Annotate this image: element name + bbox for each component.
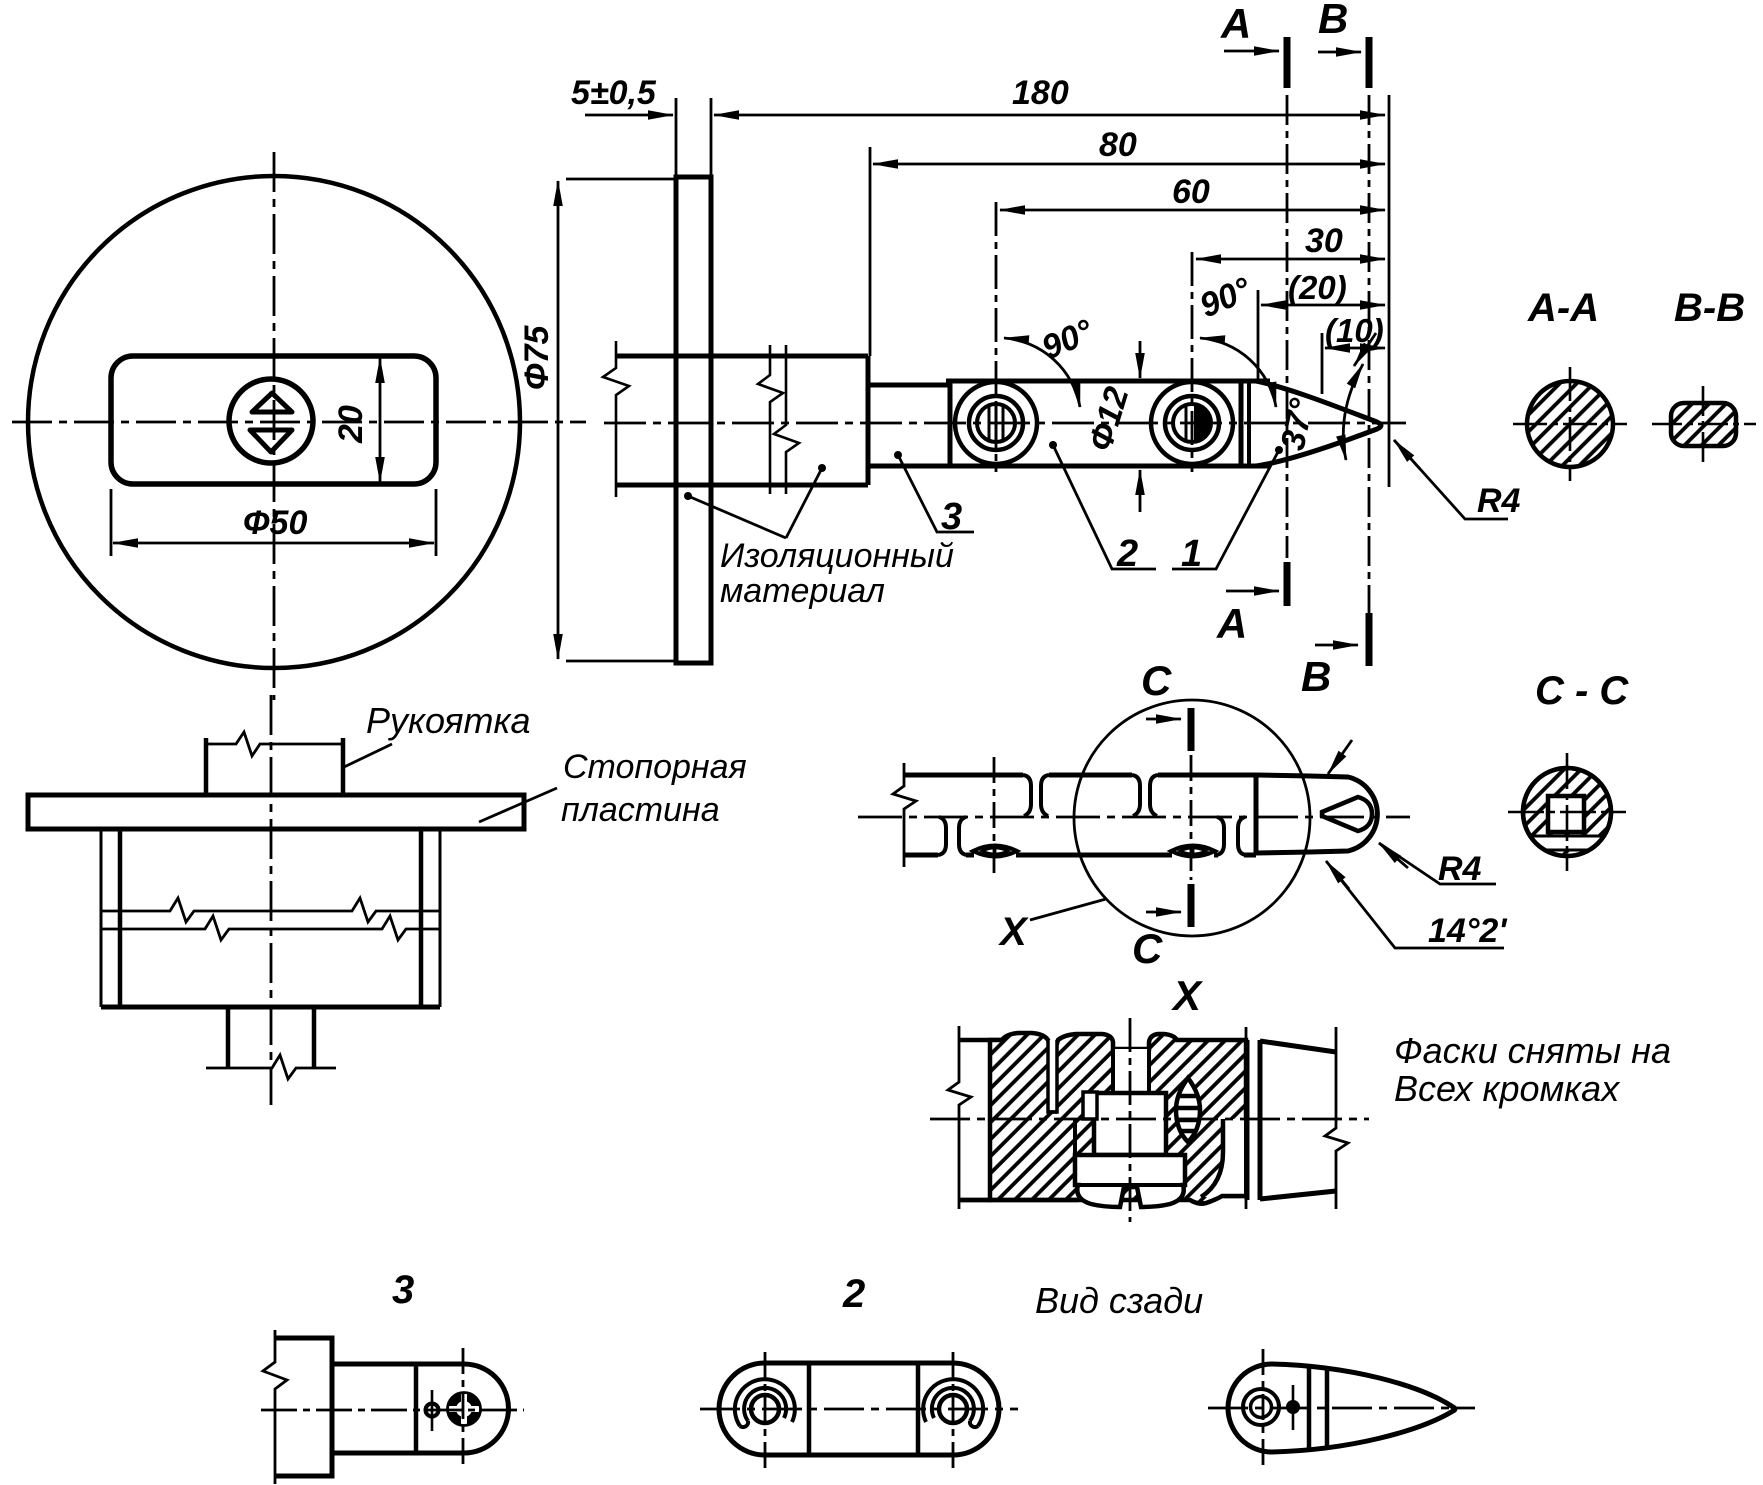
37deg arc <box>1343 364 1363 460</box>
C-C hatched circle <box>1523 768 1611 856</box>
part3 nose arc <box>464 1364 509 1453</box>
svg-text:B-B: B-B <box>1674 286 1745 330</box>
left break line <box>893 763 916 867</box>
handle stub break top line <box>206 732 343 756</box>
C-C square hole <box>1548 796 1584 832</box>
part2 screw circle left <box>751 1395 779 1423</box>
stop plate rect <box>28 795 524 829</box>
R4 leader (side view) <box>1394 440 1508 519</box>
body inner left <box>118 829 123 1007</box>
svg-text:Всех кромках: Всех кромках <box>1394 1068 1621 1109</box>
PLAN VIEW <box>858 700 1504 948</box>
svg-text:20: 20 <box>332 405 370 444</box>
bottom edge segments <box>904 853 938 858</box>
90deg arc screw2 <box>1200 338 1276 407</box>
section B-B hatched square <box>1671 403 1736 446</box>
part3 joint line <box>414 1364 419 1453</box>
svg-text:Фаски сняты на: Фаски сняты на <box>1394 1030 1671 1071</box>
dim 20 vertical <box>379 358 382 482</box>
plan tip chamfer triangle <box>1322 797 1372 831</box>
top edge segments <box>904 773 1023 778</box>
svg-text:Ф50: Ф50 <box>243 504 307 542</box>
joint lines <box>1245 1040 1250 1200</box>
white screw stem <box>1113 1049 1149 1093</box>
svg-text:C - C: C - C <box>1535 669 1629 713</box>
bar left end <box>948 381 953 466</box>
14deg2 upper arrow <box>1328 740 1352 774</box>
SIDE VIEW (plate + handle + bar + tip) <box>603 95 1406 663</box>
screw1 axis plan <box>993 757 996 874</box>
boss rounded rectangle <box>111 356 436 484</box>
screw symbol upper triangle <box>252 393 292 412</box>
svg-text:C: C <box>1141 657 1172 704</box>
handle stub right edge <box>341 738 346 795</box>
section arrow B bottom <box>1315 644 1358 647</box>
joint line <box>1254 775 1259 855</box>
svg-text:C: C <box>1132 925 1163 972</box>
bar/tip joint line 1 <box>1239 381 1244 466</box>
side view centerline <box>604 422 1406 425</box>
rear view teardrop outline <box>1228 1364 1455 1452</box>
svg-text:A: A <box>1216 600 1247 647</box>
F75 extension top <box>566 178 676 181</box>
svg-text:80: 80 <box>1099 126 1137 164</box>
dim F50 line <box>113 542 434 545</box>
svg-text:Стопорная: Стопорная <box>563 748 747 786</box>
part3 rod top <box>332 1362 464 1367</box>
part2 hook right <box>923 1379 983 1426</box>
extension (10) at x=1322 <box>1321 333 1324 394</box>
C-C SECTION <box>1508 753 1626 871</box>
section A-A hatched circle <box>1527 381 1613 467</box>
svg-text:2: 2 <box>1116 533 1138 575</box>
svg-text:60: 60 <box>1172 173 1210 211</box>
X leader <box>1030 899 1106 920</box>
tip piece bottom edge <box>1260 1191 1336 1199</box>
leader dot part1 <box>1275 446 1283 454</box>
part2 inner line left <box>807 1363 812 1455</box>
section line B <box>1368 95 1371 640</box>
svg-text:Рукоятка: Рукоятка <box>366 700 530 741</box>
svg-text:3: 3 <box>392 1268 414 1312</box>
screw symbol lower triangle <box>250 430 292 452</box>
svg-text:B: B <box>1301 653 1331 700</box>
part2 centerlines <box>700 1408 1018 1411</box>
rear view centerlines <box>1208 1407 1475 1410</box>
part3 small hole <box>426 1404 439 1417</box>
bar/tip joint line 2 <box>1247 381 1251 466</box>
screw 1 inner circle <box>977 404 1015 442</box>
detail circle X <box>1074 700 1310 936</box>
leader izolyacionnyi dot on plate <box>684 492 692 500</box>
bar top edge <box>946 379 1270 384</box>
section mark C bottom <box>1188 884 1195 927</box>
top slot 2 <box>1132 775 1158 816</box>
svg-text:материал: материал <box>720 572 885 610</box>
top slot 1 <box>1023 775 1049 816</box>
DIMENSIONS top <box>558 37 1508 666</box>
section mark A bottom <box>1284 562 1291 606</box>
SECTIONS A-A B-B <box>1513 367 1756 481</box>
leader rukoyatka <box>342 744 392 768</box>
white gap under nut left <box>1073 1119 1077 1155</box>
assembly centerline <box>270 695 273 1105</box>
leader line part2 <box>1053 445 1156 569</box>
handle stub left edge <box>204 738 209 795</box>
leader dot part2 <box>1049 441 1057 449</box>
C-C outline redraw <box>1523 768 1611 856</box>
dim 30 <box>1196 258 1385 261</box>
90deg arc screw1 <box>1004 338 1080 407</box>
extension (20) at x=1258 <box>1257 290 1260 381</box>
plan tip outline <box>1256 775 1377 853</box>
section mark B bottom <box>1366 613 1373 666</box>
rear view joint lines <box>1307 1366 1312 1450</box>
C-C crosshair <box>1508 811 1626 814</box>
tip piece top edge <box>1260 1041 1336 1052</box>
part3 flat bar rect <box>275 1338 332 1476</box>
body inner right <box>419 829 424 1007</box>
disc outline <box>28 176 520 668</box>
dim F75 vertical <box>557 181 560 659</box>
R4 leader plan <box>1379 843 1496 884</box>
part3 centerlines <box>261 1409 524 1412</box>
stop plate (edge view) <box>676 177 711 663</box>
svg-text:14°2': 14°2' <box>1428 912 1508 950</box>
part3 rod bottom <box>332 1451 464 1456</box>
svg-text:X: X <box>1171 972 1204 1019</box>
section arrow C bottom <box>1146 911 1181 914</box>
F12 arrow bottom <box>1139 470 1142 512</box>
screw head symbol circle <box>229 379 313 463</box>
screw1 axis <box>995 202 998 472</box>
section mark A top <box>1284 37 1291 88</box>
centerline horizontal <box>12 421 586 424</box>
screw 2 washer circle <box>1151 382 1233 464</box>
dim 80 <box>873 163 1385 166</box>
section mark B top <box>1366 37 1373 88</box>
BOTTOM ROW <box>261 1330 1475 1484</box>
white step washer <box>1083 1092 1097 1119</box>
section arrow B top <box>1318 51 1361 54</box>
white screw head with slot <box>1075 1155 1185 1207</box>
bar bottom edge <box>946 464 1270 469</box>
X DETAIL <box>930 1018 1369 1222</box>
F50 extension lines <box>110 489 113 556</box>
rear view screw circles <box>1243 1389 1279 1425</box>
bottom edge redraw <box>959 1196 1246 1204</box>
left thin break line <box>948 1026 971 1209</box>
top edge stubs <box>959 1040 1002 1200</box>
part3 break line left <box>263 1330 287 1484</box>
screw 1 mid circle <box>969 396 1023 450</box>
body outer left <box>100 829 103 1007</box>
rod top <box>868 383 950 388</box>
break line 2 <box>101 916 440 940</box>
svg-text:X: X <box>998 910 1029 954</box>
leader izolyacionnyi lines <box>688 468 822 538</box>
rear view small hole <box>1286 1400 1300 1414</box>
svg-text:5±0,5: 5±0,5 <box>571 74 657 112</box>
hatched body with flange domes <box>990 1033 1246 1204</box>
extension at tip x=1389 <box>1388 95 1391 487</box>
plate extension lines up <box>675 98 678 177</box>
handle boss top edge <box>616 354 868 359</box>
svg-text:Ф75: Ф75 <box>518 325 556 390</box>
LOWER-LEFT ASSEMBLY <box>28 695 557 1105</box>
A-A crosshair <box>1513 423 1627 426</box>
dim 180 <box>714 114 1385 117</box>
section arrow A bottom <box>1226 590 1279 593</box>
svg-text:2: 2 <box>842 1272 865 1316</box>
screw 2 half-filled slot <box>1194 405 1212 441</box>
bottom stub left <box>226 1007 231 1068</box>
screw slot lens 1 <box>973 846 1017 857</box>
bottom stub break line <box>206 1055 336 1079</box>
screw 1 slot lines <box>989 404 1003 442</box>
screw2 axis <box>1191 252 1194 472</box>
screw 2 mid circle <box>1165 396 1219 450</box>
FRONT VIEW (big circle) <box>12 152 586 700</box>
leader line part1 <box>1172 450 1279 569</box>
svg-text:Изоляционный: Изоляционный <box>720 537 954 575</box>
svg-text:3: 3 <box>941 496 962 538</box>
dim (20) <box>1261 304 1385 307</box>
screw 2 inner circle <box>1173 404 1211 442</box>
dim (10) <box>1325 347 1385 350</box>
svg-text:R4: R4 <box>1438 850 1482 888</box>
section arrow A top <box>1224 50 1279 53</box>
plan centerline <box>858 816 1410 819</box>
svg-text:(20): (20) <box>1288 269 1347 306</box>
14deg2 leader <box>1330 866 1504 948</box>
bottom slot 1 <box>938 817 967 855</box>
body bottom <box>101 1005 440 1010</box>
centerline vertical <box>273 152 276 700</box>
svg-text:A: A <box>1220 0 1251 47</box>
bottom stub right <box>312 1007 317 1068</box>
part2 inner line right <box>916 1363 921 1455</box>
white bushing channel <box>1048 1040 1057 1112</box>
leader dot part3 <box>894 451 902 459</box>
boss mid break line 2 <box>774 345 799 494</box>
body outer right <box>439 829 442 1007</box>
svg-text:R4: R4 <box>1477 482 1521 520</box>
extension 80 at x=870 <box>869 147 872 356</box>
section line A <box>1286 95 1289 558</box>
svg-text:(10): (10) <box>1325 312 1384 349</box>
svg-text:Вид сзади: Вид сзади <box>1035 1280 1203 1321</box>
boss left break line <box>603 341 629 497</box>
svg-text:A-A: A-A <box>1527 286 1599 330</box>
bottom slot 2 <box>1216 817 1246 855</box>
part2 screw circle right <box>939 1395 967 1423</box>
screw slot lens 2 <box>1171 846 1215 857</box>
head slot inner line <box>1078 1183 1183 1187</box>
svg-text:B: B <box>1318 0 1348 42</box>
X view vertical centerline <box>1129 1018 1132 1222</box>
tip ogive <box>1256 381 1381 466</box>
screw2 axis plan <box>1190 755 1193 880</box>
leader stopornaya <box>479 788 557 822</box>
joint thin overshoot line <box>1245 1027 1248 1209</box>
break line 1 <box>101 898 440 922</box>
section mark C top <box>1188 708 1195 751</box>
dim 5+-0.5 left segment <box>585 114 673 117</box>
lock screw eye <box>1176 1078 1200 1142</box>
C-C white band (screw slot) <box>1523 836 1611 850</box>
screw 1 washer circle <box>955 382 1037 464</box>
boss mid break line 1 <box>758 345 783 494</box>
part2 hook left <box>735 1379 795 1426</box>
svg-text:30: 30 <box>1305 222 1343 260</box>
part2 stadium outline <box>719 1363 999 1455</box>
section arrow C top <box>1146 718 1181 721</box>
X view horizontal centerline <box>930 1118 1369 1121</box>
svg-text:180: 180 <box>1012 74 1069 112</box>
rod bottom <box>868 464 950 469</box>
dim 60 <box>1000 209 1385 212</box>
leader line part3 <box>898 455 974 532</box>
svg-text:1: 1 <box>1181 533 1202 575</box>
boss right face <box>866 356 871 485</box>
part3 screw head (black ring with cross) <box>448 1393 481 1426</box>
right hatch foot curve <box>1201 1119 1223 1197</box>
tip chamfer arrow <box>1354 333 1376 366</box>
svg-text:пластина: пластина <box>561 791 720 829</box>
handle boss bottom edge <box>616 483 868 488</box>
F12 arrow top <box>1139 341 1142 378</box>
white right channel <box>1201 1119 1244 1197</box>
F75 extension bottom <box>566 660 676 663</box>
right thin break line <box>1325 1027 1348 1209</box>
B-B crosshair <box>1652 423 1756 426</box>
white nut square <box>1094 1093 1166 1155</box>
leader izolyacionnyi dot on boss <box>818 464 826 472</box>
